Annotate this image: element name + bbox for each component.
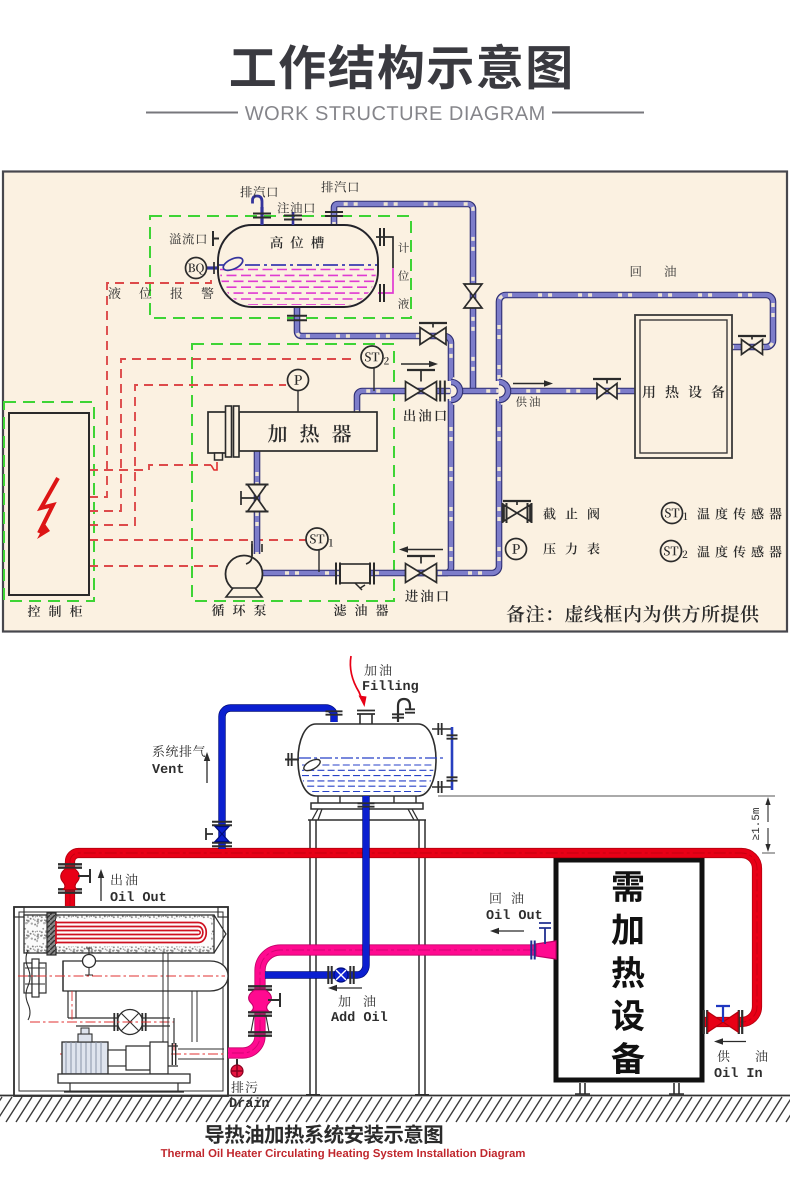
tank label 高位槽 — [270, 236, 324, 249]
red control wire to level alarm BQ — [89, 277, 211, 497]
oil outlet valve 出油口 — [406, 370, 437, 401]
left flange stack of heater — [24, 963, 32, 993]
valve before heat user — [593, 379, 621, 399]
lower heater vessel — [63, 961, 228, 991]
pipe - tank drain lower part — [412, 399, 451, 573]
pink return pipe from heat user to pump suction — [228, 950, 556, 1053]
legend temperature sensor ST1 温度传感器 — [662, 503, 683, 524]
green dashed box - high level tank group — [150, 216, 411, 318]
schematic panel background — [3, 172, 787, 632]
label 排汽口 left — [240, 186, 277, 197]
oil inlet label 进油口 — [405, 590, 448, 603]
label 出油 Oil Out with arrow — [100, 878, 102, 901]
legend stop valve symbol 截止阀 — [503, 501, 531, 521]
label 供油 Oil In with arrow — [723, 1041, 746, 1043]
valve between pump and heater — [241, 485, 269, 512]
label 注油口 — [278, 202, 315, 213]
red control wire to pressure gauge P — [89, 385, 286, 525]
red control wire to temperature sensor ST2 — [89, 359, 352, 511]
page subtitle WORK STRUCTURE DIAGRAM — [245, 106, 544, 120]
legend pressure gauge P 压力表 — [506, 539, 527, 560]
level gauge piping 液位计 — [376, 237, 393, 268]
red control wire to temperature sensor ST1 — [89, 539, 306, 541]
bottom title 导热油加热系统安装示意图 — [205, 1124, 442, 1144]
oil filter 滤油器 — [340, 564, 370, 583]
pipe - heater outlet to supply header — [357, 391, 635, 412]
label 液位报警 — [108, 287, 213, 299]
red valve at heater outlet — [58, 864, 90, 892]
oil inlet valve 进油口 — [406, 556, 437, 583]
high level tank 高位槽 shell — [218, 225, 378, 307]
pipe - return line from heat user — [499, 295, 773, 381]
subtitle side rules — [146, 112, 644, 114]
internal piping with centerlines — [68, 991, 76, 1018]
pipe - tank drain down to pump suction, upper part — [297, 305, 451, 381]
red oil-out pipe from heater to heat user — [70, 853, 757, 1022]
tank bottom nozzle flange — [287, 316, 307, 320]
electric motor — [62, 1042, 108, 1074]
blue vent valve — [212, 822, 232, 825]
tower frame legs — [312, 809, 418, 820]
green dashed box - control cabinet group — [4, 402, 94, 601]
circulation pump 循环泵 — [252, 544, 262, 556]
blue vent pipe from tank 系统排气 — [222, 708, 334, 849]
label 加油 Add Oil with arrow — [337, 987, 362, 989]
cabinet label 控制柜 — [28, 605, 82, 617]
label 回油 Oil Out with arrow — [490, 892, 523, 904]
note 备注 — [507, 605, 759, 623]
float ball of level alarm — [221, 255, 244, 273]
tank manhole nozzle (filling) — [360, 714, 372, 724]
level gauge label 液位计 (vertical) — [398, 242, 409, 309]
tank support saddles and platform — [318, 796, 416, 803]
tank right level gauge — [432, 729, 452, 787]
heater 加热器 body — [239, 412, 377, 451]
box label 需加热设备 (vertical) — [612, 871, 645, 1074]
temperature sensor ST2 on heater outlet — [373, 368, 375, 391]
arrow above oil outlet valve — [401, 363, 429, 365]
pump label 循环泵 — [212, 604, 266, 616]
heater element terminal stub — [215, 453, 223, 460]
pump body — [108, 1050, 126, 1066]
red filling arrow 加油 Filling — [350, 656, 361, 697]
supply arrow 供油 — [513, 383, 544, 385]
red dash-dot centerlines in cabinet — [18, 976, 225, 1054]
tank filling nozzle 注油口 — [292, 212, 295, 225]
valve on tank drain line — [419, 323, 447, 345]
drain fitting 排污 — [236, 1059, 238, 1065]
supply label 供油 — [516, 396, 540, 407]
control cabinet 控制柜 — [9, 413, 89, 595]
pink riser valve with handwheel — [248, 986, 272, 989]
label 系统排气 Vent with arrow — [153, 745, 205, 757]
pipe - return line lower part to oil inlet valve — [404, 399, 499, 573]
pipe hop - tank drain over supply header — [451, 382, 457, 400]
label 排汽口 right — [321, 181, 358, 192]
label 溢流口 — [170, 233, 207, 245]
heater label 加热器 — [268, 424, 351, 443]
heating element red U-tubes — [56, 919, 211, 947]
expansion tank shell — [298, 724, 436, 796]
blue add-oil line from tank bottom — [265, 796, 366, 975]
arrow above oil inlet valve — [408, 549, 443, 551]
red control wire to circulation pump — [89, 565, 224, 567]
green dashed box - heater pump group — [192, 344, 394, 601]
heat user equipment box 需加热设备 — [556, 860, 702, 1080]
red control wire to heater element — [89, 465, 211, 470]
tank vent gooseneck 排汽口 — [260, 207, 263, 225]
temperature sensor ST1 at pump — [318, 550, 320, 572]
oil outlet label 出油口 — [404, 409, 446, 422]
baseplate — [58, 1074, 190, 1083]
tank liquid level line — [219, 264, 377, 266]
page title 工作结构示意图 — [231, 44, 570, 90]
dimension line with arrows ≥1.5m — [767, 805, 769, 822]
red inlet valve at heat user 供油 — [704, 1010, 707, 1034]
expansion tank liquid level dash-dot line — [299, 757, 446, 759]
expansion tank liquid dashes — [302, 765, 434, 792]
pipe - oil inlet line through filter to pump — [262, 570, 407, 577]
tank vent nozzle flange 排汽口 — [325, 212, 343, 216]
valve on vent line — [464, 284, 482, 308]
blue add-oil valve — [328, 966, 331, 984]
return label 回油 — [631, 266, 676, 277]
ground line with hatching — [0, 1095, 790, 1097]
box feet — [575, 1083, 684, 1094]
small pressure gauge on vessel — [83, 955, 96, 968]
tank overflow nozzle 溢流口 — [213, 231, 219, 246]
dimension extension lines — [438, 796, 775, 853]
label 排污 Drain — [231, 1081, 257, 1093]
heat user equipment box 用热设备 — [635, 315, 732, 458]
level alarm instrument BQ — [207, 266, 218, 269]
cabinet internal struts — [163, 953, 197, 1042]
valve on return at heat user — [738, 336, 766, 355]
vent cock on return pipe — [539, 923, 551, 944]
butterfly valve in cabinet — [118, 1010, 143, 1035]
tank gooseneck vent — [398, 699, 410, 722]
heater cabinet outer frame — [14, 907, 228, 1096]
thermowell cable (wavy) — [26, 950, 30, 1020]
pump discharge elbow — [173, 1018, 175, 1044]
pressure gauge P on heater — [297, 390, 299, 412]
pipe hop - return line over supply header — [499, 382, 505, 400]
reducer bell at heat user box — [536, 941, 556, 959]
pipe - pump discharge to heater — [254, 451, 261, 554]
lightning bolt symbol — [39, 478, 58, 533]
filter label 滤油器 — [334, 604, 388, 616]
insulated heater top vessel with stipple — [24, 915, 214, 953]
spool with flanges below valve — [248, 1032, 272, 1035]
pipe - tank vent line to supply header — [334, 204, 473, 390]
tank left nozzle — [285, 759, 299, 761]
bottom subtitle red english — [161, 1149, 525, 1160]
pump suction pipe to cabinet edge — [178, 1049, 224, 1059]
legend temperature sensor ST2 温度传感器 — [661, 541, 682, 562]
heating element tube sheet — [47, 913, 56, 955]
tower posts — [310, 820, 425, 1095]
